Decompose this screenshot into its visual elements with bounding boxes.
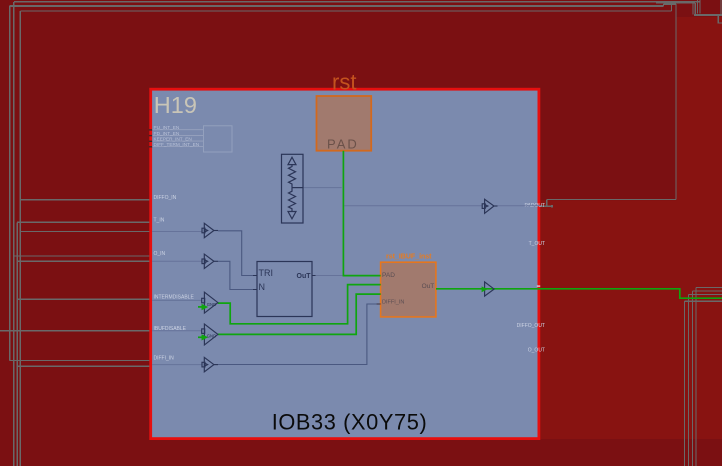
svg-text:PU_INT_EN: PU_INT_EN (154, 125, 180, 130)
svg-text:TRI: TRI (259, 268, 274, 278)
svg-text:OuT: OuT (297, 273, 312, 280)
svg-text:PAD: PAD (382, 272, 395, 279)
svg-text:DIFFI_IN: DIFFI_IN (154, 356, 175, 362)
svg-text:PAD: PAD (327, 137, 359, 152)
svg-text:O_IN: O_IN (154, 251, 166, 257)
svg-text:DIFFO_OUT: DIFFO_OUT (517, 323, 545, 329)
svg-text:IOB33 (X0Y75): IOB33 (X0Y75) (272, 410, 428, 435)
svg-text:DIFFI_IN: DIFFI_IN (382, 300, 404, 306)
svg-text:rst: rst (332, 70, 356, 95)
svg-text:DIFFO_IN: DIFFO_IN (154, 195, 177, 201)
svg-text:DIFF_TERM_INT_EN: DIFF_TERM_INT_EN (154, 142, 200, 147)
svg-text:GND: GND (207, 334, 216, 339)
svg-text:H19: H19 (154, 92, 197, 118)
svg-text:OuT: OuT (422, 283, 435, 290)
svg-text:N: N (259, 282, 266, 292)
svg-text:KEEPER_INT_EN: KEEPER_INT_EN (154, 137, 192, 142)
svg-text:T_OUT: T_OUT (529, 241, 545, 247)
svg-text:O_OUT: O_OUT (528, 348, 545, 354)
svg-text:INTERMDISABLE: INTERMDISABLE (154, 294, 195, 300)
svg-text:GND: GND (207, 302, 216, 307)
svg-text:T_IN: T_IN (154, 217, 165, 223)
svg-text:PD_INT_EN: PD_INT_EN (154, 131, 180, 136)
svg-text:rst_IBUF_inst: rst_IBUF_inst (386, 253, 432, 260)
